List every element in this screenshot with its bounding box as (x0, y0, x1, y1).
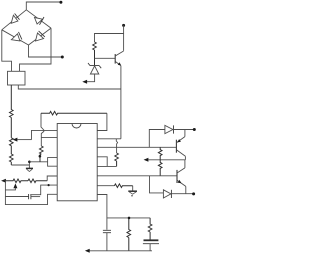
wire IC pin2 tap (41, 137, 57, 139)
wire bridge left vertex down to block (2, 30, 12, 72)
wire Q2 emitter down to tap (184, 156, 186, 160)
node junction dot on bottom rail (128, 217, 131, 220)
wire pot wiper up to IC pin1 (32, 130, 58, 139)
diode D3 (lower-left arm) (11, 32, 22, 41)
wire IC right pin bottom to cap column (97, 195, 107, 230)
node terminal dot right-top (193, 128, 196, 131)
node AC terminal top (dot) (59, 1, 62, 4)
resistor R10 (horizontal, to ground) (114, 184, 132, 188)
potentiometer R13 (horizontal) (4, 179, 28, 183)
wire IC right pin y186 to R10 (97, 185, 114, 187)
wire diode D6 output to terminal (171, 193, 193, 195)
wire Q2 collector up to rail (184, 130, 186, 137)
diode D4 (lower-right arm) (36, 31, 45, 41)
wire IC right pin y166 to R7 bottom (97, 165, 116, 167)
wire bottom ground wire (88, 250, 153, 252)
wire Q1 emitter rail down (120, 66, 122, 139)
block U2 (regulator) (8, 71, 26, 85)
wire feedback column x41 with crossover jog (41, 113, 44, 146)
wire bridge bottom vertex to AC terminal (29, 45, 63, 57)
wire left chain bottom to ground column (11, 164, 29, 166)
diode D1 (upper-left arm) (11, 14, 19, 24)
node AC terminal bottom (dot) (61, 56, 64, 59)
wire Q3 emitter down to rail 2 (185, 186, 187, 193)
wire Q1 collector up to supply dot (123, 25, 125, 50)
resistor R14 (horizontal) (28, 179, 47, 183)
wire mid tap with arrow terminal (144, 158, 186, 162)
node terminal dot right-bottom (192, 192, 195, 195)
wire block bottom-right pin to ground rail (18, 85, 121, 89)
IC U1 body (57, 124, 97, 201)
resistor R7 (x116) (115, 153, 119, 166)
zener diode Z1 (88, 63, 101, 74)
ground GND2 (128, 190, 137, 192)
wire diode D5 output to terminal (174, 129, 195, 131)
wire R14 to IC pin5-left (47, 176, 57, 181)
capacitor C3 (29, 194, 31, 199)
wire Q3 collector up to tap (184, 160, 186, 168)
wire IC right pin y157 stub (97, 157, 107, 167)
wire branch up to diode rail 1 (149, 130, 165, 148)
resistor R3 (left chain bottom) (10, 154, 14, 165)
wire IC pins3/4 tie bracket (48, 158, 58, 167)
wire bridge top vertex to AC terminal (26, 2, 60, 10)
wire C1 bottom to ground rail (106, 233, 108, 251)
node dot at R4 bottom (39, 155, 42, 158)
node junction dot at ground tap (28, 161, 31, 164)
resistor R12 (bottom right) (148, 218, 152, 240)
node dot on pin6 wire (48, 184, 50, 186)
capacitor C1 (103, 230, 111, 232)
wire R5 right down to IC pin top-right (97, 113, 107, 130)
wire ground column vertical (28, 162, 30, 169)
capacitor C3 left lead (5, 196, 28, 198)
potentiometer R2 wiper arrow (13, 138, 32, 142)
wire zener anode to arrow terminal (85, 74, 95, 82)
IC U1 pin-1 notch (72, 124, 81, 129)
bridge rectifier frame (2, 10, 51, 45)
resistor R8 (divider top) (158, 147, 162, 160)
resistor R5 (top feedback, horizontal) (41, 111, 107, 115)
resistor R1 (left chain top) (10, 85, 14, 138)
transistor Q2 (176, 137, 185, 157)
wire x116 drop with jog (116, 139, 117, 153)
wire bottom distribution rail (107, 217, 150, 219)
arrow terminal bottom-left (1, 179, 6, 183)
wire IC pin y147 to Q2 base (97, 146, 176, 148)
capacitor C3 right lead (31, 196, 40, 198)
transistor Q1 (115, 51, 123, 66)
wire branch down to diode rail 2 (150, 176, 164, 193)
wire bridge right vertex down-left to block (20, 28, 52, 71)
diode D5 (165, 125, 174, 133)
wire IC pin6-left route (32, 185, 58, 195)
wire Q1 base (95, 57, 116, 59)
wire IC right pin1 to x116 jog (97, 138, 121, 140)
resistor R11 (bottom middle) (127, 218, 131, 251)
wire left vertical supply column (5, 181, 57, 205)
arrow terminal bottom ground (85, 249, 90, 253)
potentiometer R13 wiper arrow (5, 183, 17, 190)
resistor R9 (divider bottom) (158, 160, 162, 176)
capacitor C2 (polarized) (143, 240, 159, 251)
potentiometer R2 (10, 138, 14, 154)
wire net rail y162 to pins3/4 tie (29, 161, 47, 163)
resistor R4 (feedback lower) (40, 146, 44, 162)
arrow terminal (zener anode) (82, 80, 87, 84)
wire zener top feed (95, 34, 124, 43)
node supply dot above Q1 (122, 24, 125, 27)
wire IC pin y176 to Q3 base (97, 175, 177, 177)
transistor Q3 (177, 168, 186, 187)
resistor R6 (zener feed) (93, 42, 97, 66)
ground GND1 (26, 167, 33, 169)
diode D2 (upper-right arm) (35, 17, 45, 25)
diode D6 (163, 190, 171, 198)
wire R10 down to ground (132, 186, 134, 191)
